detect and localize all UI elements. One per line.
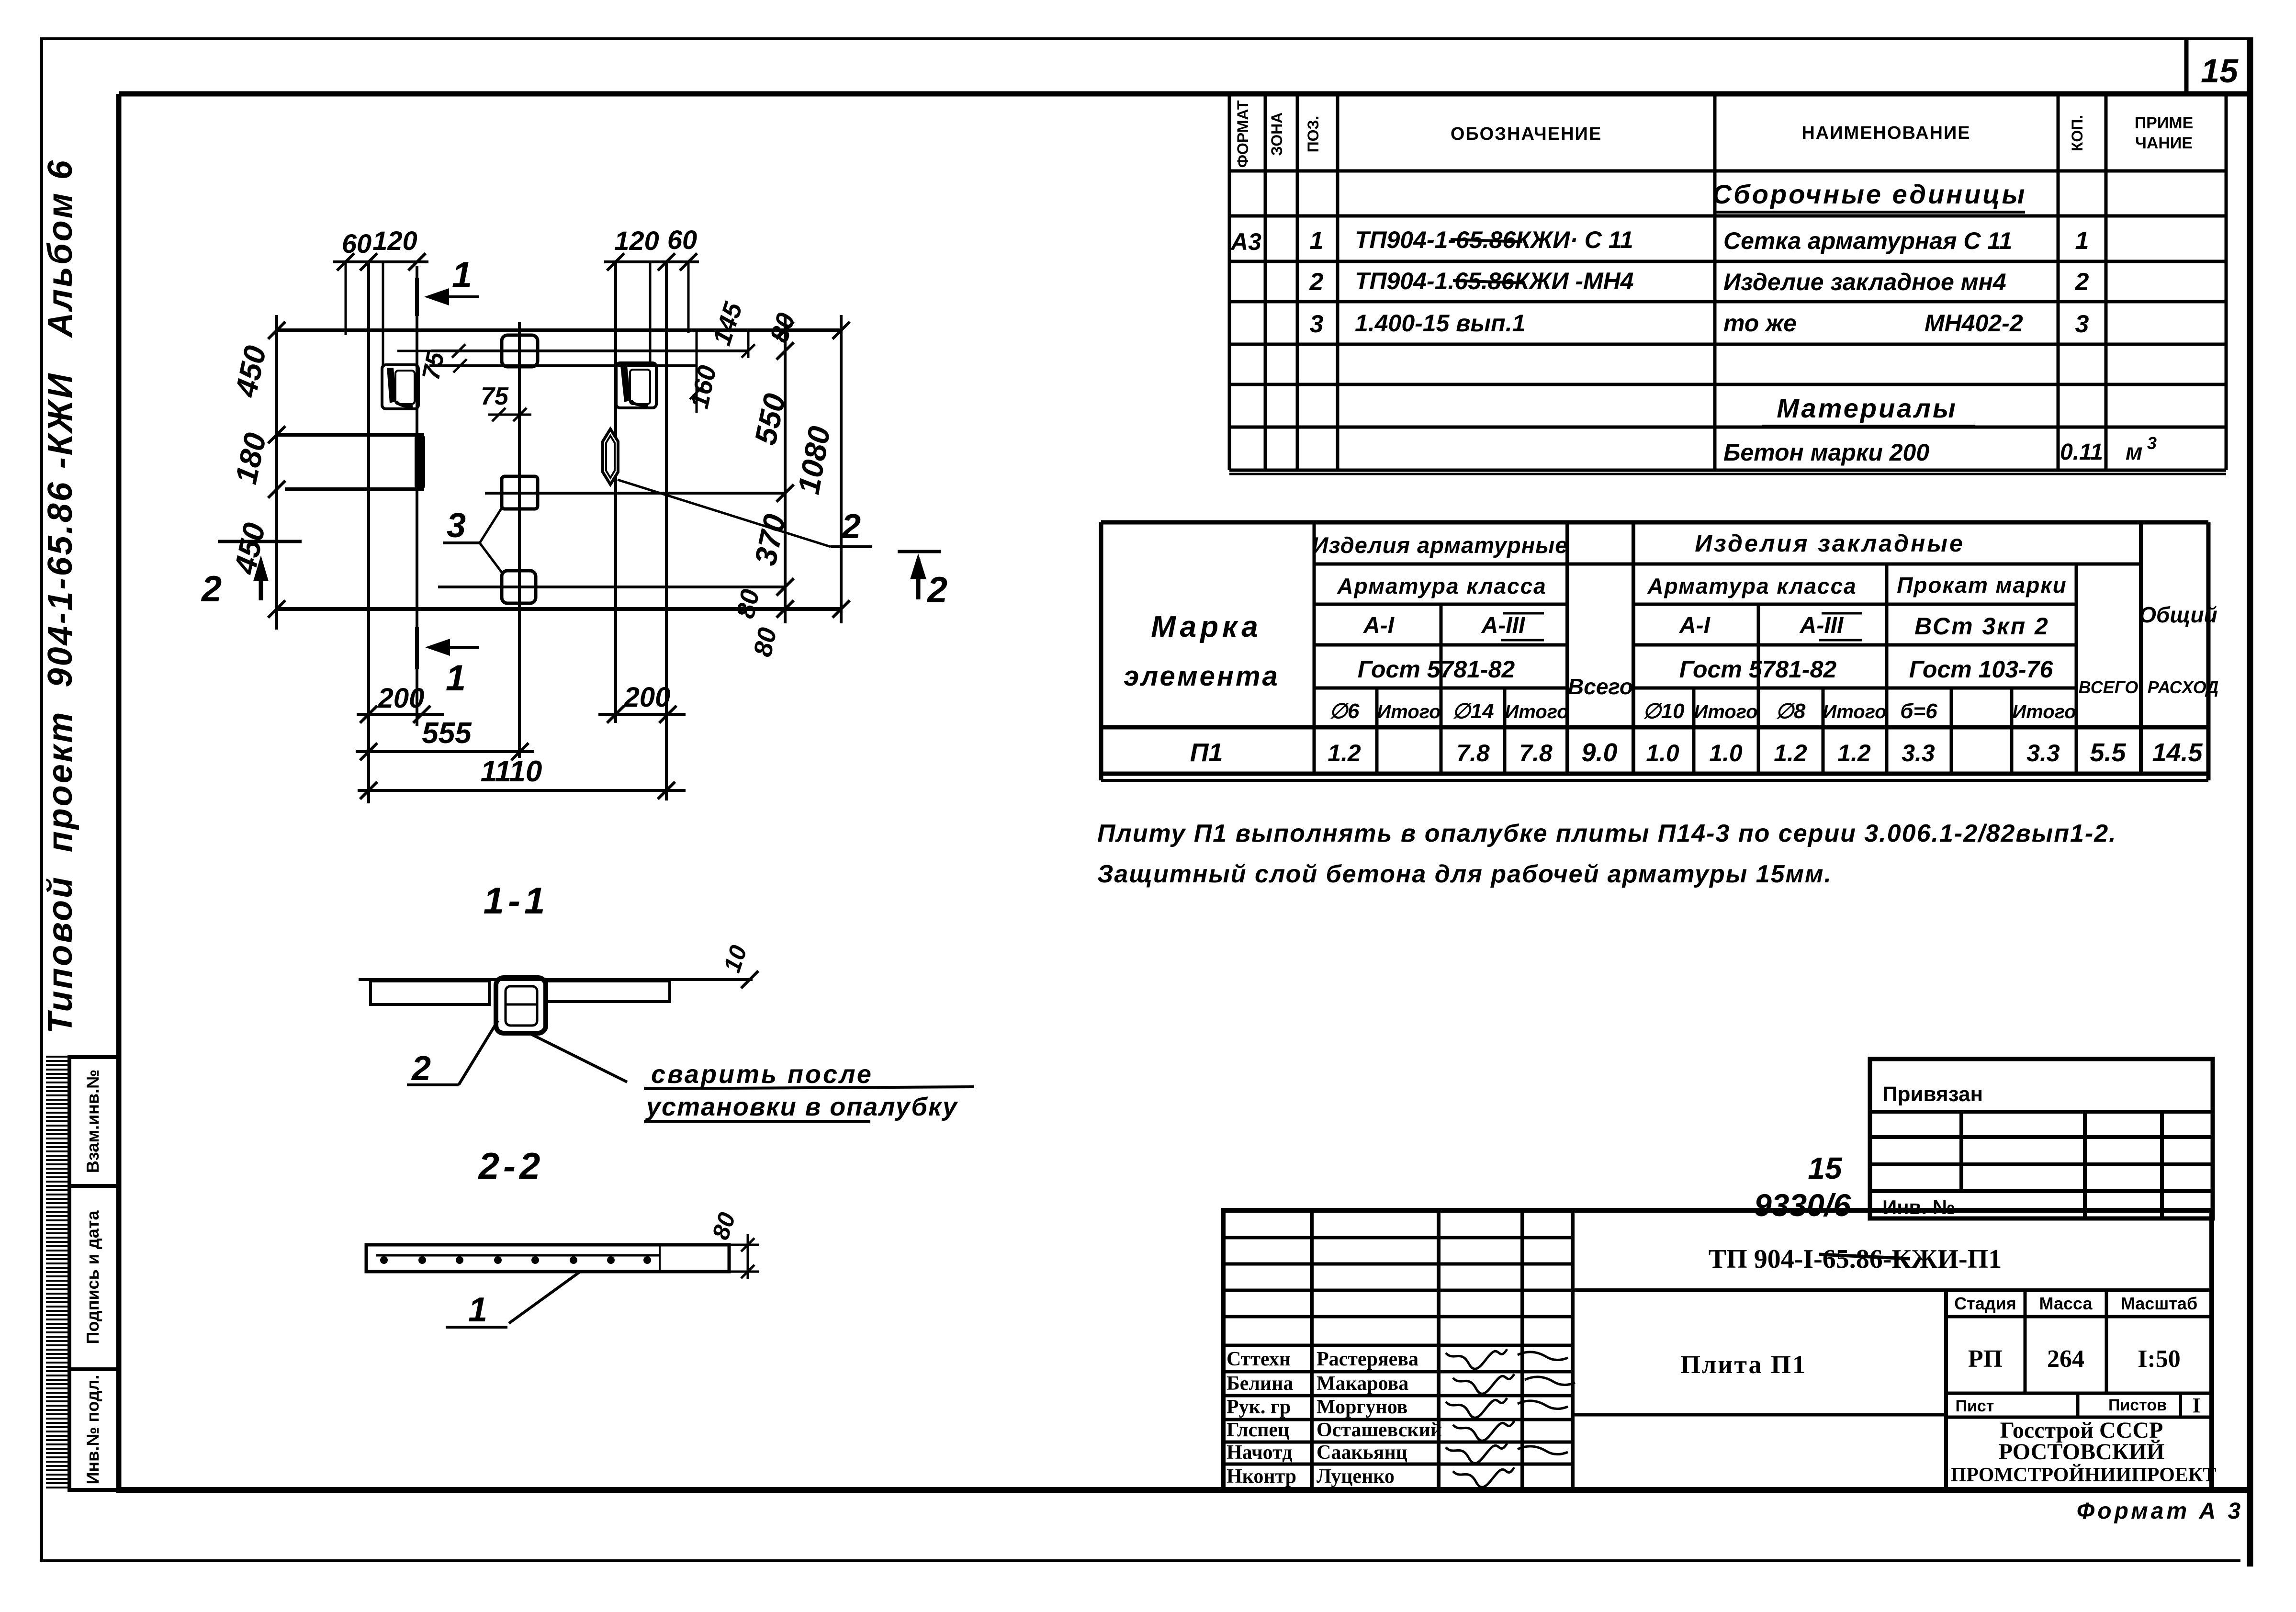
notch end bar <box>415 434 425 490</box>
svg-text:1.0: 1.0 <box>1646 740 1679 767</box>
svg-text:ПОЗ.: ПОЗ. <box>1305 116 1322 153</box>
svg-text:Белина: Белина <box>1227 1373 1293 1395</box>
svg-text:Макарова: Макарова <box>1317 1373 1408 1395</box>
svg-text:1.2: 1.2 <box>1774 740 1807 767</box>
svg-text:Подпись и дата: Подпись и дата <box>83 1210 102 1344</box>
svg-text:3.3: 3.3 <box>1902 740 1935 767</box>
dim line 555 <box>356 750 534 753</box>
svg-text:Пистов: Пистов <box>2108 1396 2167 1414</box>
signature scribble 4 <box>1453 1421 1514 1441</box>
section 1-1 embedded box inner <box>506 986 537 1026</box>
position 1 leader section <box>509 1272 580 1323</box>
mesh square top <box>502 335 538 367</box>
weld note underline 1 <box>644 1087 974 1089</box>
svg-text:элемента: элемента <box>1124 661 1280 692</box>
svg-text:Инв. №: Инв. № <box>1882 1196 1955 1218</box>
svg-text:Бетон марки 200: Бетон марки 200 <box>1723 439 1929 466</box>
extension line 200r left <box>615 680 617 723</box>
signature scribble 2 <box>1453 1374 1575 1394</box>
section 2-2 dim extension <box>729 1244 759 1246</box>
tick mesh 75 top <box>452 344 465 358</box>
embedded hook right outline <box>616 363 656 408</box>
section 1-1 embedded box divider <box>506 1003 537 1006</box>
right strip left edge <box>614 262 617 723</box>
svg-text:Саакьянц: Саакьянц <box>1317 1442 1407 1464</box>
embedded item hexagon <box>603 429 618 485</box>
notch bottom edge <box>285 487 424 491</box>
section 1-1 right slab <box>547 981 670 1002</box>
inner frame bottom <box>119 1487 2253 1493</box>
svg-text:м: м <box>2126 440 2143 465</box>
svg-text:РАСХОД: РАСХОД <box>2148 677 2219 697</box>
svg-text:Материалы: Материалы <box>1777 393 1958 423</box>
svg-text:А-ІІІ: А-ІІІ <box>1800 613 1844 638</box>
svg-text:НАИМЕНОВАНИЕ: НАИМЕНОВАНИЕ <box>1801 123 1970 143</box>
svg-text:І:50: І:50 <box>2138 1345 2181 1373</box>
title block grid <box>1223 1210 2212 1490</box>
svg-text:Типовой проект 904-1-65.86 -: Типовой проект 904-1-65.86 -КЖИ Альбом 6 <box>41 158 79 1034</box>
left strip inner edge <box>382 262 384 365</box>
svg-text:2-2: 2-2 <box>478 1145 544 1187</box>
svg-text:Марка: Марка <box>1151 610 1261 643</box>
section mark 2 right bar <box>898 550 941 553</box>
svg-text:Итого: Итого <box>1377 701 1441 722</box>
outer thin border bottom <box>42 1559 2240 1562</box>
embedded hook right bar <box>620 366 631 402</box>
tick left chain 1022 <box>268 481 285 498</box>
tick right chain 1030 <box>777 485 794 502</box>
right chain dim line <box>784 315 787 623</box>
tick left chain 908 <box>268 426 285 443</box>
tick right chain 690 <box>777 322 794 339</box>
svg-text:Растеряева: Растеряева <box>1317 1348 1418 1370</box>
tick chord end <box>741 971 758 988</box>
svg-text:П1: П1 <box>1190 738 1223 767</box>
svg-text:Нконтр: Нконтр <box>1227 1465 1296 1488</box>
svg-text:1.0: 1.0 <box>1709 740 1743 767</box>
section 2-2 dim line <box>747 1234 749 1279</box>
tick right total 1272 <box>833 600 850 618</box>
svg-text:3: 3 <box>2075 310 2089 338</box>
signature scribble 3 <box>1446 1398 1568 1418</box>
svg-text:Плита П1: Плита П1 <box>1680 1350 1807 1379</box>
svg-text:2: 2 <box>841 507 861 546</box>
svg-text:2: 2 <box>2075 268 2089 296</box>
svg-text:80: 80 <box>731 587 765 621</box>
svg-text:2: 2 <box>201 569 222 609</box>
position 3 leader upper <box>480 507 503 543</box>
svg-text:ПРОМСТРОЙНИИПРОЕКТ: ПРОМСТРОЙНИИПРОЕКТ <box>1951 1464 2217 1486</box>
tick right chain 733 <box>777 342 794 360</box>
svg-text:555: 555 <box>422 717 472 750</box>
section 2-2 rebar dots <box>380 1256 388 1264</box>
svg-text:75: 75 <box>481 383 509 410</box>
section mark 2 right arrow <box>916 559 921 599</box>
svg-text:РП: РП <box>1968 1345 2003 1373</box>
svg-text:А-І: А-І <box>1679 613 1711 638</box>
position 2 leader <box>618 480 831 547</box>
svg-text:Итого: Итого <box>1823 701 1886 722</box>
svg-text:60: 60 <box>342 228 371 259</box>
tick top dim 770 <box>360 253 377 271</box>
svg-text:Начотд: Начотд <box>1227 1442 1292 1464</box>
svg-text:Всего: Всего <box>1568 674 1633 699</box>
svg-text:2: 2 <box>926 570 947 610</box>
svg-text:КОП.: КОП. <box>2069 115 2086 151</box>
extension 60 left <box>345 261 347 335</box>
svg-text:то же: то же <box>1723 310 1797 337</box>
tick right chain 1272 <box>777 600 794 618</box>
svg-text:Итого: Итого <box>1505 701 1568 722</box>
embedded hook left bar <box>387 368 396 403</box>
svg-text:А-ІІІ: А-ІІІ <box>1481 613 1526 638</box>
svg-text:ФОРМАТ: ФОРМАТ <box>1234 100 1251 168</box>
section mark 2 left arrow <box>259 563 263 600</box>
svg-text:3: 3 <box>2147 433 2157 453</box>
svg-text:3: 3 <box>1310 310 1324 338</box>
left strip left edge <box>367 262 370 803</box>
mesh bar bottom <box>438 586 785 588</box>
signature scribble 6 <box>1453 1467 1514 1487</box>
signature scribble 1 <box>1446 1349 1568 1369</box>
svg-text:Инв.№ подл.: Инв.№ подл. <box>83 1375 102 1485</box>
svg-text:80: 80 <box>748 625 782 659</box>
svg-text:Арматура класса: Арматура класса <box>1647 574 1857 598</box>
svg-text:264: 264 <box>2047 1345 2084 1373</box>
svg-text:3: 3 <box>447 507 466 545</box>
svg-text:Сборочные единицы: Сборочные единицы <box>1712 179 2027 209</box>
weld note underline 2 <box>644 1120 870 1123</box>
left strip right edge <box>416 266 418 726</box>
svg-text:3.3: 3.3 <box>2026 740 2060 767</box>
section mark 1 bottom line <box>415 627 419 669</box>
svg-text:7.8: 7.8 <box>1456 740 1490 767</box>
svg-text:ЧАНИЕ: ЧАНИЕ <box>2135 134 2193 152</box>
inventory box grid <box>1870 1112 2213 1218</box>
svg-text:І: І <box>2192 1394 2200 1417</box>
weld note leader <box>529 1033 627 1082</box>
svg-text:1.2: 1.2 <box>1837 740 1871 767</box>
svg-text:∅6: ∅6 <box>1329 699 1360 723</box>
section 2-2 mesh line <box>376 1254 660 1257</box>
right strip inner edge <box>649 262 652 364</box>
svg-text:120: 120 <box>372 225 417 256</box>
svg-text:ЗОНА: ЗОНА <box>1268 113 1285 156</box>
tick top dim r 1286 <box>607 253 624 271</box>
svg-text:Моргунов: Моргунов <box>1317 1396 1407 1418</box>
right total dim line <box>840 315 843 623</box>
specification table grid <box>1229 94 2226 474</box>
svg-text:1.2: 1.2 <box>1328 740 1361 767</box>
left dimension line <box>275 315 278 630</box>
svg-text:ПРИМЕ: ПРИМЕ <box>2135 114 2194 132</box>
inner frame top <box>119 91 2253 97</box>
signature scribble 5 <box>1446 1443 1568 1463</box>
embedded item hexagon inner <box>606 436 615 478</box>
position 2 leader section <box>459 1021 498 1085</box>
svg-text:9.0: 9.0 <box>1581 738 1617 767</box>
svg-text:б=6: б=6 <box>1900 699 1937 723</box>
svg-text:Изделия арматурные: Изделия арматурные <box>1312 532 1568 558</box>
svg-text:Сттехн: Сттехн <box>1227 1348 1291 1370</box>
svg-text:Итого: Итого <box>2012 701 2076 722</box>
position 3 leader lower <box>480 543 503 574</box>
outer thin border left <box>40 37 43 1562</box>
section 1-1 top chord <box>359 978 753 981</box>
svg-text:∅14: ∅14 <box>1452 699 1494 723</box>
svg-text:Масса: Масса <box>2039 1294 2093 1313</box>
tick top dim 871 <box>408 253 426 271</box>
svg-text:Стадия: Стадия <box>1954 1294 2016 1313</box>
position 1 underline section <box>446 1326 507 1329</box>
svg-text:установки в опалубку: установки в опалубку <box>645 1093 958 1121</box>
svg-text:Привязан: Привязан <box>1882 1082 1983 1106</box>
section 2-2 divider <box>659 1245 661 1272</box>
notch top edge <box>277 433 424 437</box>
sidebar stamp boxes <box>69 1057 119 1490</box>
tick right chain 1226 <box>777 578 794 596</box>
svg-text:∅8: ∅8 <box>1776 699 1806 723</box>
svg-text:РОСТОВСКИЙ: РОСТОВСКИЙ <box>1999 1439 2165 1465</box>
dim 75 pointer left <box>397 350 459 352</box>
inventory box outer <box>1870 1059 2213 1218</box>
svg-text:Гост 5781-82: Гост 5781-82 <box>1358 656 1515 683</box>
svg-text:0.11: 0.11 <box>2060 440 2103 465</box>
position 2 underline <box>831 545 872 548</box>
mesh bar second <box>429 364 697 367</box>
section mark 1 bottom arrow <box>433 646 479 649</box>
svg-text:Пист: Пист <box>1956 1397 1994 1415</box>
svg-text:Рук. гр: Рук. гр <box>1227 1396 1291 1418</box>
svg-text:Сетка арматурная С 11: Сетка арматурная С 11 <box>1723 227 2012 254</box>
svg-text:Общий: Общий <box>2139 602 2217 627</box>
svg-text:МН402-2: МН402-2 <box>1925 310 2023 337</box>
extension 160 <box>696 329 698 413</box>
dim line 200 left <box>357 713 444 716</box>
tick top dim r 1438 <box>680 253 697 271</box>
svg-text:1.400-15 вып.1: 1.400-15 вып.1 <box>1355 310 1525 337</box>
svg-text:15: 15 <box>1808 1151 1843 1185</box>
svg-text:2: 2 <box>411 1049 431 1088</box>
svg-text:2: 2 <box>1309 268 1324 296</box>
steel summary table grid <box>1101 522 2208 780</box>
svg-text:Гост 103-76: Гост 103-76 <box>1909 656 2054 683</box>
mesh square bottom <box>502 571 536 603</box>
section 2-2 slab outline <box>366 1245 729 1272</box>
svg-text:Гост 5781-82: Гост 5781-82 <box>1679 656 1837 683</box>
embedded hook left outline <box>382 365 418 409</box>
sidebar perforation hatch strip <box>46 1056 69 1490</box>
tick top dim 722 <box>337 253 354 271</box>
svg-text:1: 1 <box>1310 227 1324 255</box>
svg-text:Плиту П1 выполнять в опалуб: Плиту П1 выполнять в опалубке плиты П14-… <box>1097 820 2117 847</box>
svg-text:ВСЕГО: ВСЕГО <box>2079 677 2138 697</box>
section mark 1 top arrow <box>433 295 479 298</box>
tick mesh 75 bottom <box>453 359 467 372</box>
svg-text:Итого: Итого <box>1694 701 1757 722</box>
dim line 75 centre <box>488 414 531 416</box>
svg-text:200: 200 <box>624 682 671 713</box>
inner frame right <box>2247 37 2253 1567</box>
svg-text:60: 60 <box>667 225 697 255</box>
sheet number box line <box>2184 40 2189 94</box>
tick top dim r 1392 <box>658 253 675 271</box>
svg-text:15: 15 <box>2201 52 2239 90</box>
extension 60 right <box>687 261 690 333</box>
svg-text:1: 1 <box>2075 227 2089 255</box>
plate bottom edge <box>277 607 841 611</box>
svg-text:ВСт 3кп 2: ВСт 3кп 2 <box>1914 613 2049 640</box>
svg-text:200: 200 <box>378 683 425 714</box>
svg-text:1110: 1110 <box>481 755 542 788</box>
svg-text:Осташевский: Осташевский <box>1317 1419 1442 1441</box>
top dim line left <box>333 260 428 263</box>
svg-text:ТП 904-І-65.86-КЖИ-П1: ТП 904-І-65.86-КЖИ-П1 <box>1709 1244 2002 1274</box>
title block outer <box>1223 1210 2212 1490</box>
plan bottom dims <box>356 680 686 799</box>
svg-text:А3: А3 <box>1230 228 1261 255</box>
extension 145 <box>747 329 750 358</box>
tick left chain 690 <box>268 322 285 339</box>
svg-text:Изделие закладное мн4: Изделие закладное мн4 <box>1723 269 2006 295</box>
svg-text:Формат А 3: Формат А 3 <box>2077 1499 2243 1524</box>
position 3 underline <box>443 541 480 544</box>
top dim line right <box>604 260 699 263</box>
centre bar line <box>518 322 521 758</box>
svg-text:Изделия закладные: Изделия закладные <box>1695 530 1965 557</box>
svg-text:1: 1 <box>452 255 472 295</box>
section mark 2 left bar <box>218 540 302 543</box>
mesh bar middle <box>485 492 785 495</box>
svg-text:14.5: 14.5 <box>2152 738 2203 767</box>
svg-text:Масштаб: Масштаб <box>2121 1294 2197 1313</box>
svg-text:9330/6: 9330/6 <box>1754 1187 1851 1223</box>
svg-text:Прокат марки: Прокат марки <box>1897 573 2067 597</box>
svg-text:Луценко: Луценко <box>1317 1465 1395 1488</box>
position 2 underline section <box>407 1083 459 1086</box>
section 1-1 embedded box outer <box>496 978 546 1033</box>
plate top edge <box>277 328 841 332</box>
svg-text:1: 1 <box>468 1291 487 1329</box>
tick left chain 1272 <box>268 600 285 618</box>
svg-text:∅10: ∅10 <box>1643 699 1685 723</box>
mesh square middle <box>502 476 538 509</box>
svg-text:1: 1 <box>446 658 466 699</box>
svg-text:Защитный слой бетона для ра: Защитный слой бетона для рабочей арматур… <box>1097 860 1832 888</box>
inner frame left <box>116 94 122 1493</box>
svg-text:сварить после: сварить после <box>651 1060 873 1089</box>
dim line 1110 <box>358 789 686 792</box>
svg-text:Глспец: Глспец <box>1227 1419 1289 1441</box>
svg-text:А-І: А-І <box>1363 613 1395 638</box>
dim line 200 right <box>598 713 686 716</box>
svg-text:5.5: 5.5 <box>2090 738 2126 767</box>
outer thin border top <box>41 37 2253 40</box>
svg-text:Арматура класса: Арматура класса <box>1337 574 1547 598</box>
svg-text:1-1: 1-1 <box>484 879 549 922</box>
svg-text:ОБОЗНАЧЕНИЕ: ОБОЗНАЧЕНИЕ <box>1451 124 1602 144</box>
section mark 1 top line <box>415 278 419 316</box>
right strip right edge <box>665 261 668 800</box>
svg-text:Взам.инв.№: Взам.инв.№ <box>83 1070 102 1173</box>
svg-text:120: 120 <box>614 225 659 256</box>
section 1-1 left slab <box>371 981 489 1004</box>
tick right total 690 <box>833 322 850 339</box>
svg-text:7.8: 7.8 <box>1519 740 1553 767</box>
mesh bar upper <box>431 349 748 352</box>
